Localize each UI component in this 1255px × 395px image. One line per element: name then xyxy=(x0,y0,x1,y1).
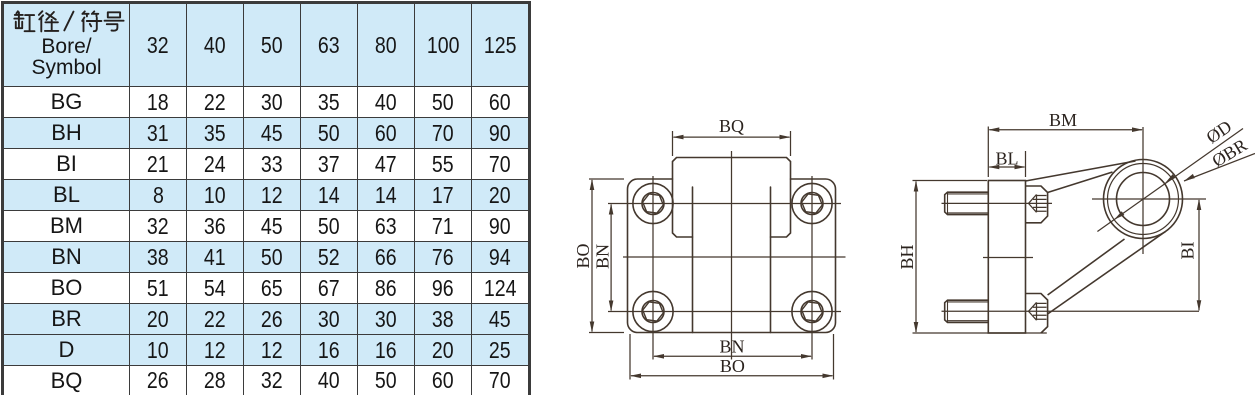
BN left arrows xyxy=(609,204,614,215)
lower arm outer line xyxy=(1048,232,1166,315)
front view mid horizontal centerline xyxy=(623,256,846,258)
diameter BR leader xyxy=(1184,154,1255,182)
bore line right xyxy=(770,187,772,333)
svg-text:BL: BL xyxy=(995,149,1018,169)
BI arrows xyxy=(1197,199,1202,210)
svg-text:BN: BN xyxy=(719,337,744,357)
dimension BL right extension xyxy=(1025,151,1027,177)
diameter BR arrow xyxy=(1184,174,1195,181)
diameter D dimension diagonal xyxy=(1097,129,1243,232)
header english caption xyxy=(4,36,129,58)
svg-text:BI: BI xyxy=(1178,241,1198,259)
dimension BH top extension xyxy=(913,180,988,182)
front view boss (clevis lug) xyxy=(673,158,791,238)
dimension BO bottom line xyxy=(631,375,833,377)
lower thread hole detail xyxy=(1029,302,1047,320)
upper thread hole detail xyxy=(1029,195,1047,213)
glyph 符 xyxy=(82,11,98,16)
BM arrows xyxy=(988,127,999,132)
dimension BQ extension lines xyxy=(673,131,791,156)
upper screw head xyxy=(945,192,989,214)
bolt hole bottom-right xyxy=(792,291,832,331)
upper arm outer line xyxy=(1026,161,1136,181)
dimension BO bottom extension lines xyxy=(630,334,834,380)
eye vertical centerline + BM extension xyxy=(1142,127,1144,254)
dimension table xyxy=(1,1,531,395)
lower screw head inner lines xyxy=(948,300,989,322)
svg-text:BM: BM xyxy=(1049,110,1077,130)
BO left arrows xyxy=(590,179,595,190)
upper arm inner line xyxy=(1048,172,1113,193)
eye outer circle xyxy=(1104,160,1183,239)
bolt hole top-left xyxy=(633,183,673,223)
dimension BQ line xyxy=(674,136,790,138)
slash xyxy=(64,12,73,31)
upper ear (boss around screw) xyxy=(1026,186,1048,223)
lower bolt centerline xyxy=(942,310,1200,312)
bore line left xyxy=(692,187,694,333)
dimension BN bottom line xyxy=(654,355,811,357)
side view plate xyxy=(988,181,1025,334)
BN bottom arrows xyxy=(653,354,664,359)
eye middle circle xyxy=(1108,164,1179,235)
glyph 号 xyxy=(105,12,124,30)
hole centerline horizontal upper xyxy=(608,203,841,205)
hole centerline horizontal lower xyxy=(608,311,841,313)
svg-text:BO: BO xyxy=(720,356,745,376)
lower screw head xyxy=(945,300,989,322)
svg-text:BH: BH xyxy=(897,244,917,269)
dimension BN left line xyxy=(610,205,612,311)
upper bolt centerline xyxy=(942,202,1053,204)
svg-text:BQ: BQ xyxy=(719,116,744,136)
BH arrows xyxy=(914,181,919,192)
front view plate outline xyxy=(628,179,836,333)
bracket bottom edge xyxy=(913,332,1047,334)
eye inner circle xyxy=(1117,173,1170,226)
lower arm inner line xyxy=(1048,239,1125,295)
BO bottom arrows xyxy=(630,374,641,379)
dimension BH line xyxy=(915,182,917,333)
upper screw head inner lines xyxy=(948,192,989,214)
diameter D arrows xyxy=(1114,211,1124,219)
dimension BM left extension xyxy=(987,127,989,178)
hole centerline vertical left xyxy=(652,176,654,360)
glyph 缸 xyxy=(14,11,23,28)
front view vertical centerline xyxy=(731,151,733,360)
BL arrows xyxy=(988,165,999,170)
dimension BO left line xyxy=(591,180,593,332)
bolt hole bottom-left xyxy=(633,291,673,331)
hole centerline vertical right xyxy=(811,176,813,360)
svg-text:BN: BN xyxy=(593,244,613,269)
plate mid parting line xyxy=(983,257,1033,259)
BQ arrows xyxy=(673,135,684,140)
bolt hole top-right xyxy=(792,183,832,223)
svg-text:BO: BO xyxy=(573,243,593,268)
dimension BI line xyxy=(1198,200,1200,310)
dimension BM line xyxy=(989,129,1142,131)
dimension BO left extension lines xyxy=(589,179,624,333)
lower ear (boss around screw) xyxy=(1026,294,1048,334)
header Chinese text 缸径/符号 (vector) xyxy=(4,4,130,34)
eye horizontal centerline + BI extension xyxy=(1092,198,1206,200)
glyph 径 xyxy=(39,11,43,31)
dimension BL line xyxy=(989,166,1024,168)
